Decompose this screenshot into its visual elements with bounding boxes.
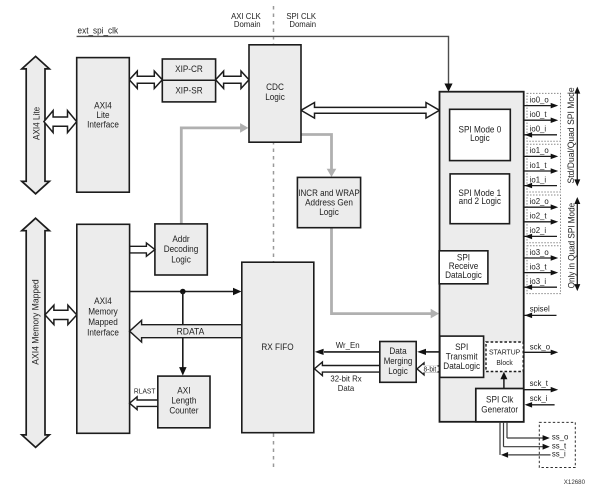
svg-text:Wr_En: Wr_En	[336, 340, 360, 350]
svg-text:io2_o: io2_o	[530, 196, 549, 206]
svg-text:Merging: Merging	[384, 356, 413, 366]
svg-text:ext_spi_clk: ext_spi_clk	[78, 26, 119, 36]
svg-text:Mapped: Mapped	[88, 317, 118, 327]
svg-text:io1_i: io1_i	[530, 174, 547, 184]
svg-text:Length: Length	[171, 396, 196, 406]
svg-text:io3_i: io3_i	[530, 276, 547, 286]
svg-text:Decoding: Decoding	[164, 244, 199, 254]
svg-text:SPI Clk: SPI Clk	[486, 395, 514, 405]
svg-text:sck_o: sck_o	[530, 341, 551, 351]
svg-text:io0_o: io0_o	[530, 94, 549, 104]
svg-text:io3_t: io3_t	[530, 261, 548, 271]
svg-text:io0_i: io0_i	[530, 124, 547, 134]
svg-text:Data: Data	[389, 346, 406, 356]
svg-text:spisel: spisel	[530, 303, 550, 313]
svg-text:io2_i: io2_i	[530, 225, 547, 235]
svg-text:DataLogic: DataLogic	[443, 361, 480, 371]
svg-text:Data: Data	[338, 383, 355, 393]
svg-text:io1_t: io1_t	[530, 160, 548, 170]
svg-text:AXI4: AXI4	[94, 100, 112, 110]
svg-text:Addr: Addr	[172, 234, 189, 244]
svg-text:io0_t: io0_t	[530, 109, 548, 119]
svg-text:Logic: Logic	[470, 133, 490, 143]
svg-text:CDC: CDC	[266, 82, 284, 92]
svg-text:Interface: Interface	[87, 327, 119, 337]
svg-text:io1_o: io1_o	[530, 145, 549, 155]
svg-text:8-bit: 8-bit	[424, 367, 437, 374]
svg-text:and 2 Logic: and 2 Logic	[459, 196, 502, 206]
svg-text:sck_i: sck_i	[530, 393, 548, 403]
svg-text:XIP-SR: XIP-SR	[175, 86, 202, 96]
svg-text:Logic: Logic	[388, 366, 408, 376]
svg-text:RX FIFO: RX FIFO	[261, 342, 293, 352]
svg-text:Logic: Logic	[265, 92, 285, 102]
svg-text:RDATA: RDATA	[177, 327, 205, 337]
svg-text:X12680: X12680	[564, 479, 586, 486]
svg-text:Memory: Memory	[88, 306, 118, 316]
svg-text:Domain: Domain	[289, 19, 316, 29]
svg-text:XIP-CR: XIP-CR	[175, 64, 203, 74]
svg-text:RLAST: RLAST	[134, 387, 156, 396]
svg-text:io2_t: io2_t	[530, 211, 548, 221]
svg-text:DataLogic: DataLogic	[445, 270, 482, 280]
svg-text:AXI4: AXI4	[94, 296, 112, 306]
svg-text:ss_i: ss_i	[552, 449, 566, 459]
svg-text:Domain: Domain	[234, 19, 261, 29]
svg-text:AXI4 Lite: AXI4 Lite	[31, 107, 41, 140]
svg-text:sck_t: sck_t	[530, 378, 549, 388]
svg-text:SPI: SPI	[455, 342, 468, 352]
svg-text:Generator: Generator	[481, 405, 518, 415]
svg-text:AXI: AXI	[177, 385, 190, 395]
svg-text:STARTUP: STARTUP	[489, 348, 520, 357]
svg-text:Only in Quad SPI Mode: Only in Quad SPI Mode	[566, 203, 576, 289]
svg-text:Interface: Interface	[87, 120, 119, 130]
svg-text:io3_o: io3_o	[530, 247, 549, 257]
svg-text:Block: Block	[496, 358, 513, 367]
svg-text:AXI4 Memory Mapped: AXI4 Memory Mapped	[31, 279, 41, 364]
svg-text:Transmit: Transmit	[446, 352, 478, 362]
svg-text:Lite: Lite	[96, 110, 109, 120]
svg-text:Logic: Logic	[319, 207, 339, 217]
svg-text:Std/Dual/Quad SPI Mode: Std/Dual/Quad SPI Mode	[566, 87, 576, 183]
svg-text:Counter: Counter	[169, 406, 198, 416]
svg-text:Logic: Logic	[171, 254, 191, 264]
